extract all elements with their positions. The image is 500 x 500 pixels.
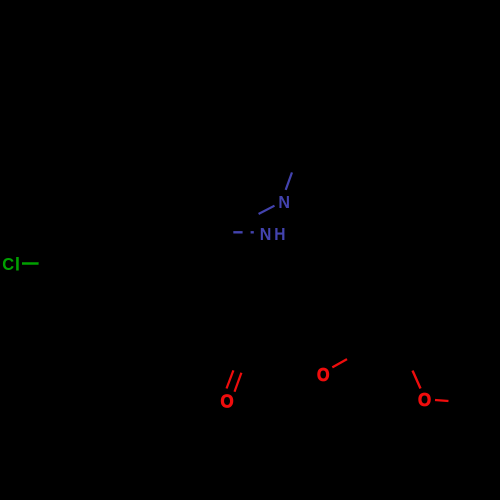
svg-text:O: O <box>221 390 234 411</box>
bond Cl-aryl (carbon half, invisible black) <box>39 264 68 266</box>
bond C=O line 1 (red half) <box>227 370 234 388</box>
bond C-NH dashed (blue dash 2) <box>251 231 254 233</box>
bond C=O line 2 (red half) <box>235 373 242 392</box>
bond N-CH3 (carbon half, invisible black) <box>292 155 299 172</box>
bond C=N (blue half, down-left) <box>259 206 275 214</box>
bond C=N (carbon half, invisible black) <box>242 214 259 223</box>
svg-text:N: N <box>260 224 272 244</box>
bond O-aryl right (carbon half, invisible black) <box>408 355 413 371</box>
ring chlorophenyl (black, invisible) <box>68 237 136 296</box>
bond Cl-aryl (green half) <box>22 262 39 264</box>
svg-text:O: O <box>317 364 330 385</box>
bond aryl-CH2 (black, invisible) <box>136 252 172 267</box>
bond O-aryl (red half, up-left diagonal) <box>413 371 421 389</box>
svg-text:l: l <box>15 253 20 274</box>
bond O-CH3 (red half, horizontal right) <box>435 400 449 401</box>
bond O-aryl (carbon half, invisible black) <box>347 350 362 359</box>
bond N-CH3 (blue half, up-right) <box>286 172 292 190</box>
svg-text:O: O <box>418 389 431 410</box>
bond C(=O)-C (black, invisible) <box>247 352 290 360</box>
svg-text:N: N <box>278 192 290 212</box>
bond CH2-C stereocenter (black, invisible) <box>172 231 217 252</box>
bond O-CH3 right (carbon half, invisible black) <box>449 401 464 403</box>
bond O-aryl (red half, up-right) <box>332 359 347 367</box>
svg-text:C: C <box>2 254 14 274</box>
bond C-NH dashed (blue dash 1) <box>233 231 242 233</box>
bond C-C to carbonyl (black, invisible) <box>217 231 247 352</box>
svg-text:H: H <box>274 224 285 244</box>
